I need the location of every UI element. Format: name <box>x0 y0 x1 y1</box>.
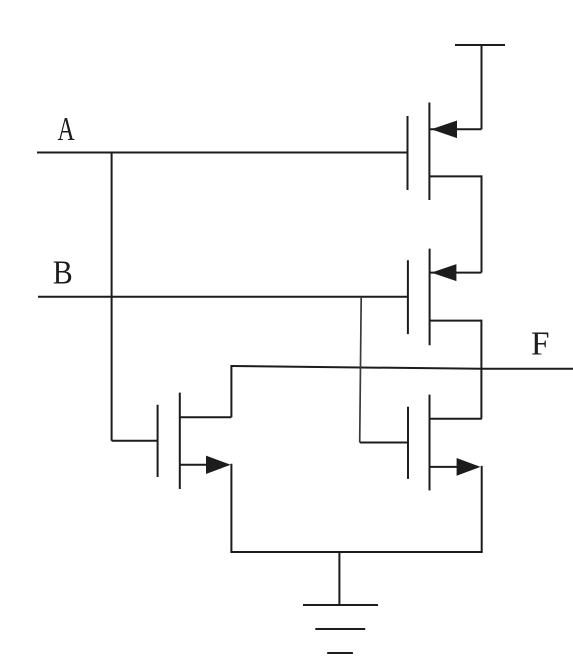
svg-text:A: A <box>58 111 75 148</box>
svg-text:F: F <box>531 325 550 362</box>
svg-text:B: B <box>53 253 73 291</box>
